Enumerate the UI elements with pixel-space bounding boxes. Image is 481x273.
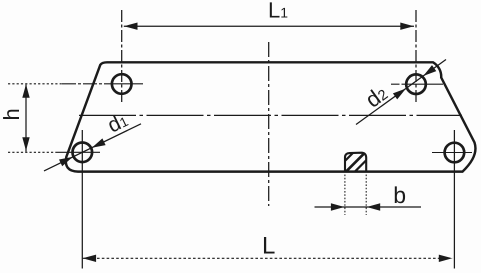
dimension L line [83,257,453,259]
d2 arrow upper-right [423,65,436,76]
dimension b left arrow [331,203,345,210]
leader line d1 [44,124,141,171]
svg-text:b: b [393,182,406,208]
vertical axis centerline [268,42,270,206]
svg-text:d2: d2 [361,80,392,112]
svg-text:h: h [0,108,24,120]
centerline horizontal bottom-right hole [432,152,472,154]
dimension h bottom arrow [22,137,29,151]
centerline horizontal top-left hole / h extension [8,83,62,85]
tab cross-section (hatched) [345,153,366,172]
dimension L left arrow [83,255,97,262]
dimension b right arrow [367,203,381,210]
centerline vertical bottom-left hole / L extension [81,130,83,269]
svg-text:L1: L1 [268,0,288,22]
hole bottom-right [445,143,465,163]
b extension line right [365,175,367,216]
centerline vertical bottom-right hole / L extension [453,130,455,269]
dimension L right arrow [439,255,453,262]
dimension L1 right arrow [400,23,414,30]
dimension b line [315,206,422,208]
leader line d2 [356,60,446,125]
dimension L1 line [124,25,414,27]
centerline horizontal bottom-left hole / h extension [8,151,56,153]
d1 arrow upper-right [92,138,106,147]
horizontal axis centerline [79,114,462,116]
hole bottom-left [73,143,93,163]
hole top-right [406,74,426,94]
svg-text:L: L [262,232,275,259]
centerline vertical top-right hole / L1 extension [415,10,417,104]
hatching [345,153,366,171]
b extension line left [344,175,346,216]
d2 arrow lower-left [393,89,406,100]
centerline vertical top-left hole / L1 extension [121,10,123,104]
part outline (trapezoidal plate) [66,62,476,171]
hole top-left [112,74,132,94]
centerline horizontal top-right hole [391,83,404,85]
dimension h top arrow [22,84,29,98]
dimension L1 left arrow [124,23,138,30]
d1 arrow lower-left [59,157,73,166]
dimension h line [25,85,27,152]
svg-text:d1: d1 [104,108,131,137]
